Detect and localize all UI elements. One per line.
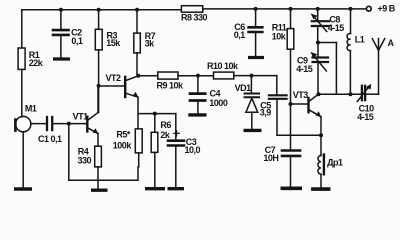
svg-text:1000: 1000 <box>209 98 228 108</box>
svg-text:R5*: R5* <box>116 129 131 139</box>
svg-text:10H: 10H <box>263 153 278 163</box>
svg-text:330: 330 <box>78 155 92 165</box>
svg-text:0,1: 0,1 <box>71 36 83 46</box>
svg-text:+9 В: +9 В <box>378 4 396 14</box>
svg-text:L1: L1 <box>355 35 365 45</box>
svg-text:R8 330: R8 330 <box>181 12 208 22</box>
svg-text:C1 0,1: C1 0,1 <box>38 134 62 144</box>
svg-text:3,9: 3,9 <box>260 108 272 118</box>
svg-text:22k: 22k <box>29 58 44 68</box>
svg-text:100k: 100k <box>113 140 133 150</box>
svg-text:0,1: 0,1 <box>234 30 246 40</box>
svg-text:A: A <box>388 38 395 48</box>
svg-text:M1: M1 <box>25 104 37 114</box>
svg-text:VT3: VT3 <box>293 90 309 100</box>
svg-text:10,0: 10,0 <box>185 145 201 155</box>
svg-text:2k: 2k <box>160 130 171 140</box>
svg-text:R9 10k: R9 10k <box>157 81 185 91</box>
svg-text:3k: 3k <box>145 38 156 48</box>
svg-text:R10 10k: R10 10k <box>207 61 239 71</box>
svg-text:4-15: 4-15 <box>328 23 345 33</box>
svg-text:10k: 10k <box>272 31 287 41</box>
svg-text:4-15: 4-15 <box>357 112 374 122</box>
svg-text:R6: R6 <box>160 120 171 130</box>
svg-text:C4: C4 <box>210 89 221 99</box>
svg-text:VT2: VT2 <box>106 73 122 83</box>
svg-text:15k: 15k <box>106 38 121 48</box>
svg-text:VT1: VT1 <box>73 112 89 122</box>
svg-text:VD1: VD1 <box>235 83 252 93</box>
svg-text:Др1: Др1 <box>327 158 343 168</box>
svg-text:4-15: 4-15 <box>296 64 313 74</box>
